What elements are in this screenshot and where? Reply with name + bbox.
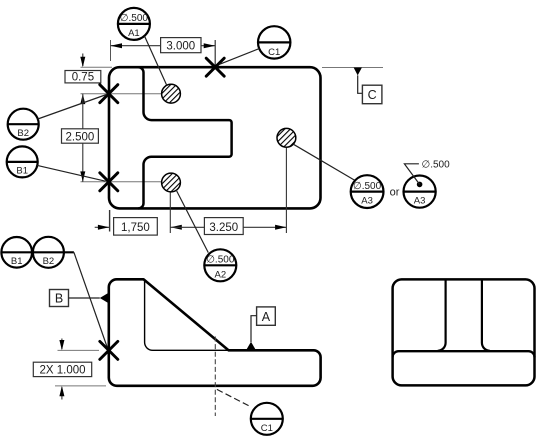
- datum C triangle: [354, 68, 362, 76]
- datum A leader: [251, 316, 257, 342]
- 0.75 dimension box: [65, 71, 101, 84]
- datum target point X (B1/B2) on side view left edge: [100, 341, 118, 359]
- extension line y=181.8 (B1 target): [81, 181, 172, 183]
- datum C box: [362, 85, 382, 104]
- extension line x=215.2 (3.000 right / C1 target): [214, 40, 216, 66]
- top view step profile (tab): [138, 67, 231, 208]
- dashed leader to C1 symbol: [217, 389, 251, 407]
- svg-text:A1: A1: [128, 28, 140, 39]
- 3.250 dimension box: [204, 218, 243, 235]
- side view step edge (thin): [145, 281, 228, 351]
- svg-text:A2: A2: [214, 269, 226, 280]
- svg-text:A: A: [262, 310, 271, 324]
- datum A box: [257, 307, 276, 325]
- extension line x=110.5 (3.000 left): [110, 40, 112, 61]
- leader A2 hatched area to symbol: [176, 190, 208, 253]
- svg-text:∅.500: ∅.500: [120, 13, 149, 24]
- extension line below part left edge (x=109.6): [109, 210, 111, 232]
- leader A1 to hatched area: [145, 36, 167, 85]
- svg-text:B1: B1: [16, 166, 28, 177]
- svg-text:∅.500: ∅.500: [422, 160, 451, 171]
- datum B triangle: [100, 293, 109, 303]
- datum target symbol A1: [118, 8, 150, 40]
- hatched target area A2: [162, 173, 181, 192]
- datum C leader: [358, 75, 363, 93]
- 3.250 dimension line: [171, 225, 287, 230]
- "or" text: [390, 186, 400, 198]
- datum B box: [50, 290, 69, 307]
- 2X 1.000 extension line bottom: [55, 385, 106, 387]
- svg-text:A3: A3: [414, 195, 426, 206]
- extension line below A3 area (x=286.4): [285, 148, 287, 233]
- svg-text:2.500: 2.500: [66, 131, 95, 143]
- leader A3 hatched area to symbol: [293, 144, 355, 180]
- extension line y=67 left of part (0.75 dim): [81, 66, 113, 68]
- svg-text:B2: B2: [17, 128, 29, 139]
- datum target symbol A3 (point form with leader): [404, 160, 451, 208]
- svg-text:∅.500: ∅.500: [353, 181, 382, 192]
- right view base band: [393, 351, 535, 357]
- 2X 1.000 dimension box: [33, 362, 91, 377]
- datum target symbol C1 (bottom): [251, 403, 283, 435]
- svg-text:or: or: [390, 186, 400, 198]
- svg-text:2X 1.000: 2X 1.000: [39, 365, 85, 377]
- datum B leader: [69, 297, 100, 299]
- datum target symbol A3 (area form): [351, 175, 384, 208]
- svg-text:B: B: [55, 292, 63, 306]
- leader B2 to X: [38, 95, 107, 120]
- top view outline: [109, 67, 321, 208]
- svg-text:A3: A3: [361, 195, 373, 206]
- svg-text:C1: C1: [268, 47, 280, 58]
- 1,750 dimension box: [114, 218, 158, 236]
- 3.000 dimension box: [161, 38, 201, 53]
- right view rib right edge: [482, 279, 490, 350]
- svg-text:0.75: 0.75: [72, 72, 94, 84]
- datum target point X (B2) on left edge: [100, 85, 118, 103]
- side view outline: [109, 279, 321, 386]
- divider line through B1 B2 extended: [1, 251, 74, 253]
- leader C1 to X: [220, 49, 260, 65]
- datum target symbol C1 (top): [258, 26, 290, 58]
- datum target symbol A2: [204, 249, 236, 281]
- 2X 1.000 arrows: [59, 339, 64, 400]
- svg-text:3.000: 3.000: [166, 40, 195, 52]
- 3.000 dimension line: [111, 43, 216, 48]
- extension line below A2 area (x=170.3): [169, 193, 171, 234]
- svg-text:C1: C1: [261, 423, 273, 434]
- C1 target line (dashed centerline on slope): [214, 337, 216, 417]
- svg-text:B2: B2: [43, 256, 55, 267]
- datum target point X (B1) on left edge: [100, 173, 118, 191]
- bottom datum target circles B1 B2: [1, 237, 32, 268]
- svg-text:∅.500: ∅.500: [206, 255, 235, 266]
- datum A triangle: [246, 342, 256, 350]
- svg-text:3.250: 3.250: [209, 222, 238, 234]
- 2X 1.000 extension line top: [58, 349, 100, 351]
- datum target point X (C1) on top edge: [206, 58, 224, 76]
- svg-text:1,750: 1,750: [121, 222, 150, 234]
- svg-text:B1: B1: [11, 256, 23, 267]
- hatched target area A1: [162, 84, 181, 103]
- datum C feature: extension line right of part: [322, 67, 383, 69]
- datum target symbol B2: [8, 109, 39, 140]
- datum target symbol B1: [7, 146, 38, 177]
- 2.500 dimension line: [80, 94, 85, 182]
- hatched target area A3: [277, 128, 296, 147]
- 0.75 dimension (outside arrows at x=82.8): [80, 54, 85, 68]
- right view rib left edge: [438, 279, 446, 350]
- extension line y=93.7 (B2 target / 0.75-2.500): [81, 93, 172, 95]
- leader B1 to X: [37, 165, 105, 181]
- right view outline: [393, 279, 535, 385]
- leader from B1/B2 to X on left edge: [74, 252, 108, 349]
- 1,750 dimension: [95, 225, 182, 230]
- svg-text:C: C: [368, 88, 377, 102]
- 2.500 dimension box: [62, 129, 99, 144]
